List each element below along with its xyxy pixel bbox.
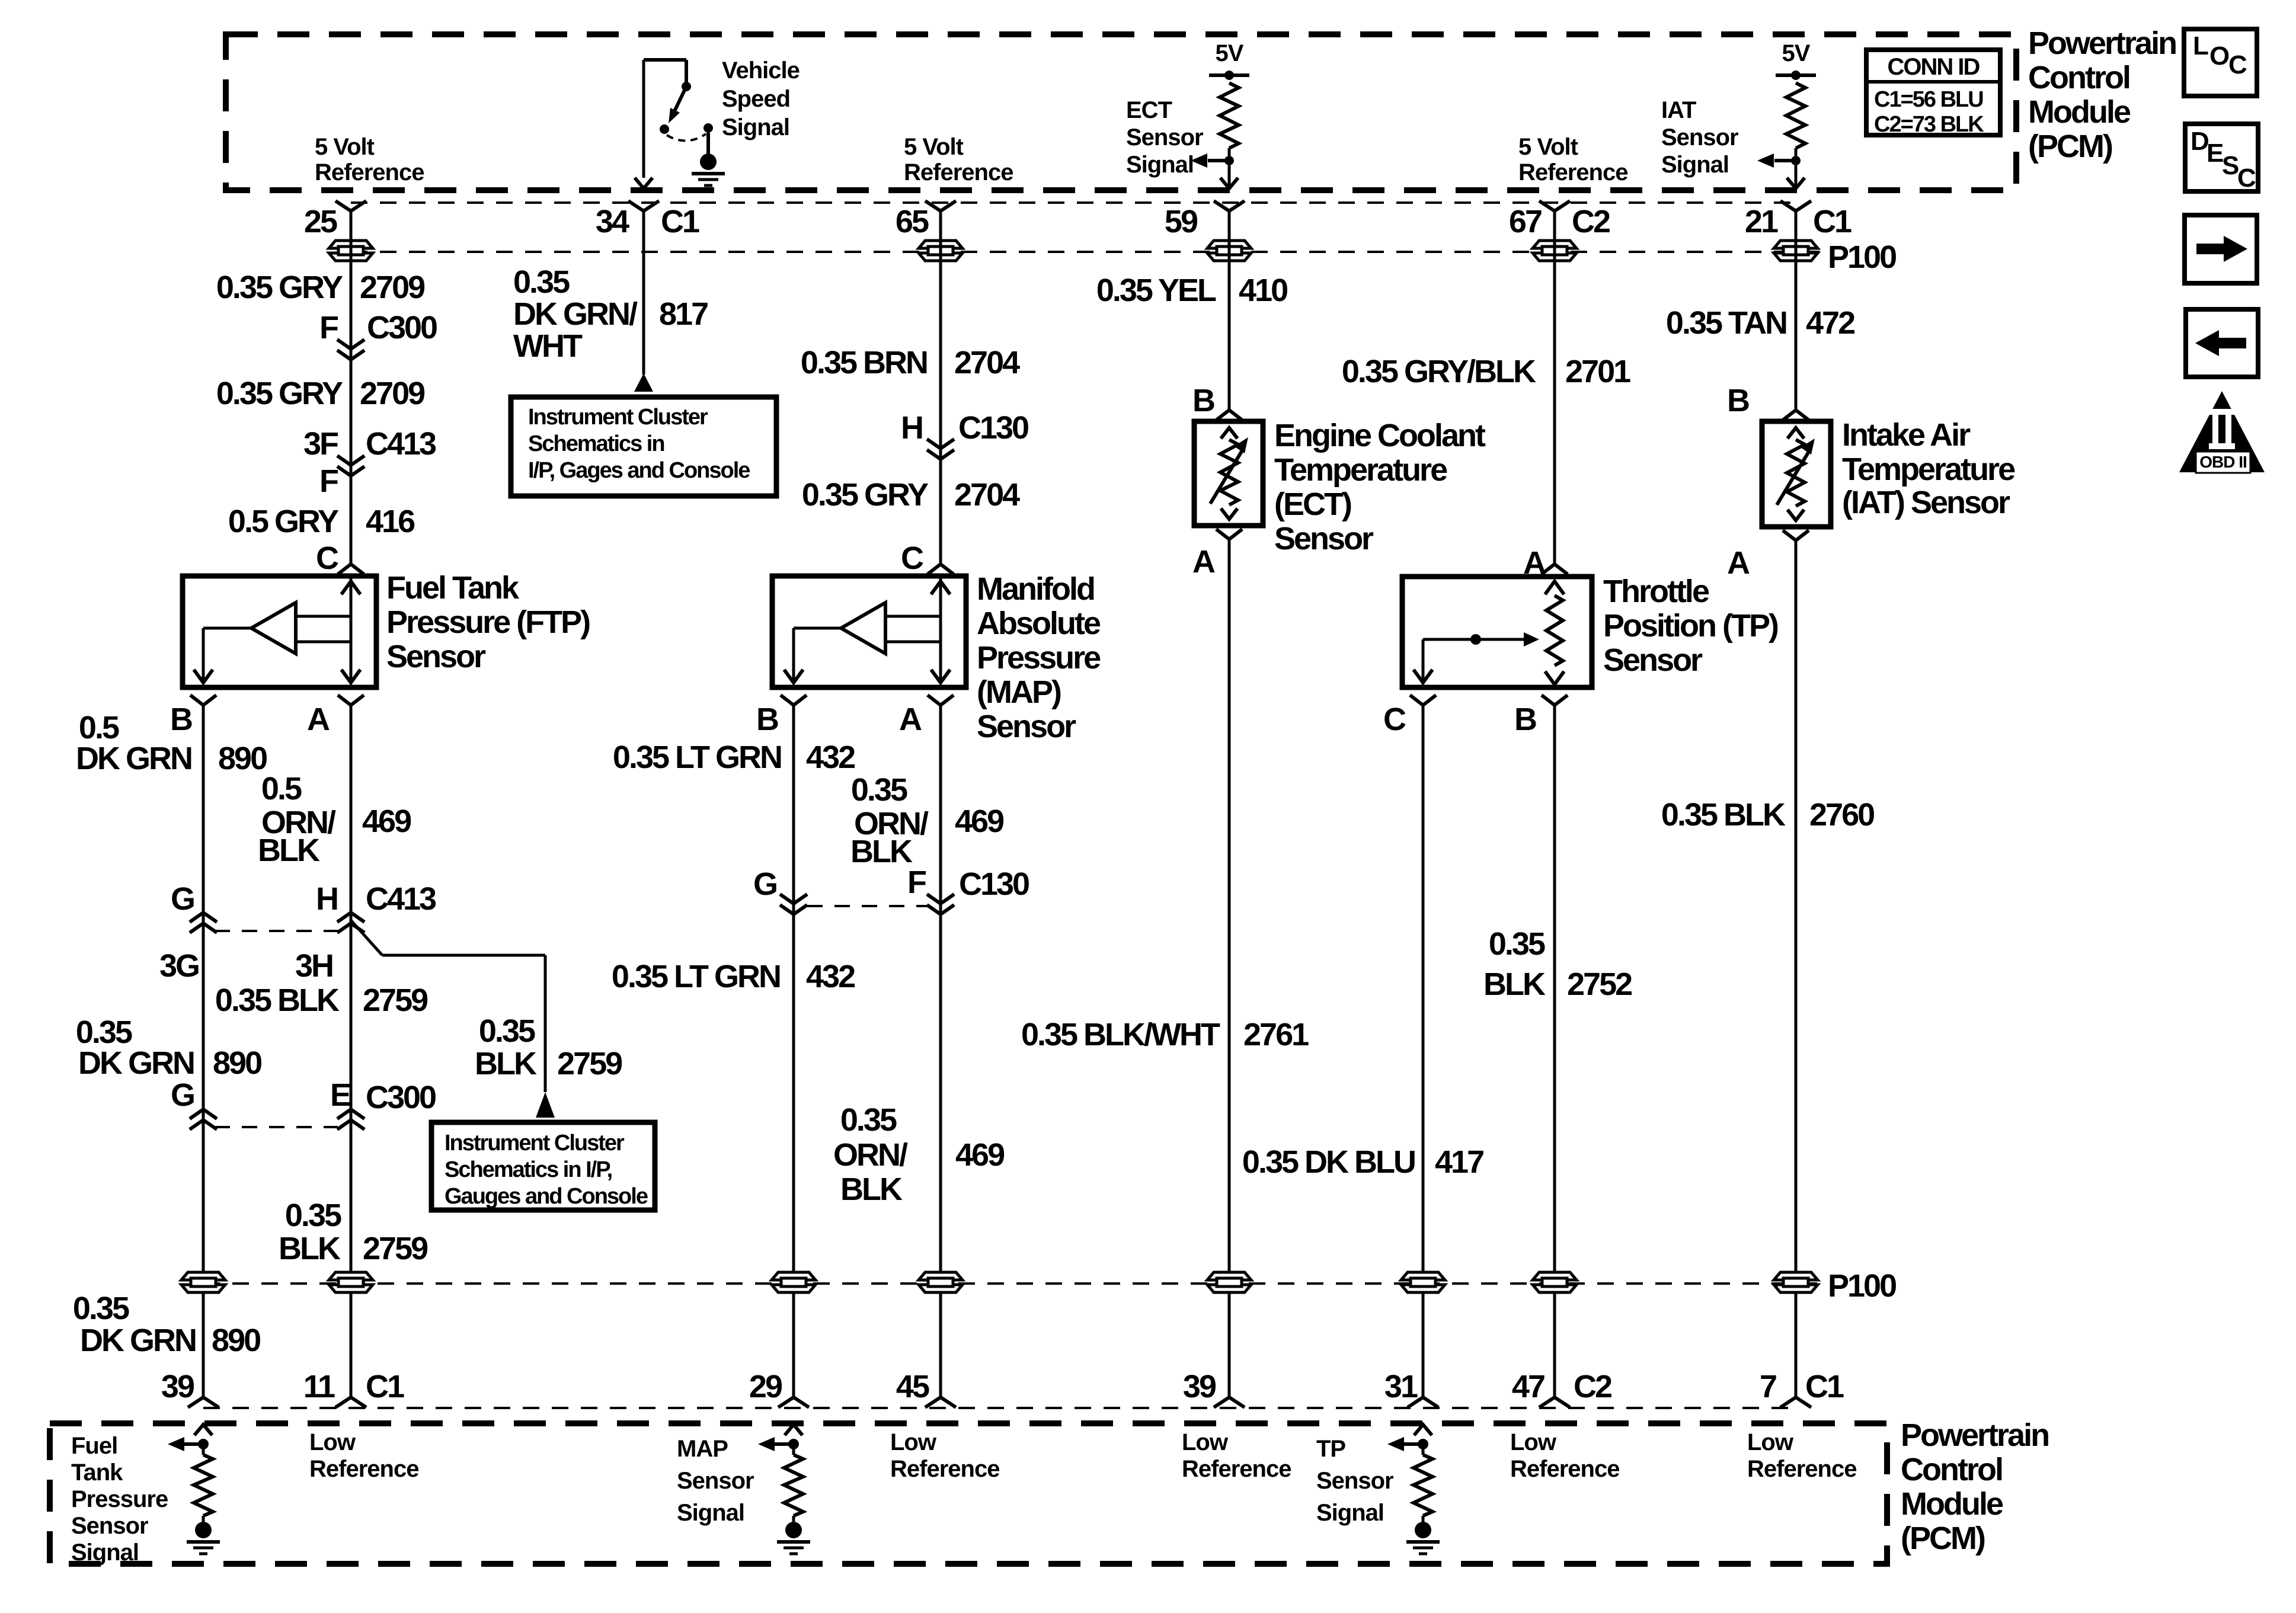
svg-text:Sensor: Sensor (1661, 124, 1738, 151)
svg-text:Sensor: Sensor (1274, 521, 1374, 556)
wire ECT A to pin 39 (1228, 539, 1231, 1397)
svg-text:2759: 2759 (363, 1231, 428, 1266)
svg-text:432: 432 (806, 740, 855, 775)
pin 21 (top) (1780, 201, 1811, 211)
svg-text:Instrument Cluster: Instrument Cluster (445, 1131, 625, 1156)
P100 inline connectors (bottom row) (181, 1272, 225, 1280)
svg-text:BLK: BLK (258, 833, 320, 868)
ground (FTP signal) (195, 1522, 212, 1538)
svg-text:Reference: Reference (1518, 159, 1627, 185)
svg-text:2701: 2701 (1565, 354, 1630, 389)
svg-text:Reference: Reference (315, 159, 424, 185)
svg-text:B: B (1727, 383, 1749, 418)
svg-text:3G: 3G (159, 948, 199, 984)
CONN ID table (1866, 50, 2000, 135)
svg-text:Schematics in: Schematics in (528, 431, 664, 456)
pin 65 (top) (925, 201, 956, 211)
svg-text:Low: Low (309, 1429, 356, 1455)
svg-text:Absolute: Absolute (977, 606, 1101, 641)
svg-text:F: F (319, 463, 338, 499)
MAP pins B and A (781, 695, 807, 705)
svg-text:DK GRN: DK GRN (80, 1323, 196, 1358)
svg-text:417: 417 (1435, 1144, 1483, 1180)
PCM top box (dashed) (226, 34, 2016, 190)
resistor IAT pull-up (1776, 73, 1816, 77)
svg-text:410: 410 (1239, 273, 1287, 308)
svg-text:Gauges and Console: Gauges and Console (445, 1184, 648, 1209)
svg-text:C413: C413 (366, 881, 436, 917)
svg-text:7: 7 (1760, 1369, 1776, 1404)
svg-text:5 Volt: 5 Volt (1518, 134, 1578, 160)
svg-text:Sensor: Sensor (677, 1468, 754, 1494)
svg-text:G: G (753, 866, 776, 902)
TP pins C and B (1410, 695, 1436, 705)
svg-text:DK GRN/: DK GRN/ (513, 296, 638, 332)
svg-text:C300: C300 (366, 1080, 436, 1115)
svg-text:C130: C130 (958, 410, 1028, 446)
svg-text:Signal: Signal (1316, 1500, 1384, 1526)
svg-text:34: 34 (596, 204, 629, 239)
svg-text:817: 817 (659, 296, 708, 332)
svg-text:C1: C1 (1813, 204, 1851, 239)
svg-text:DK GRN: DK GRN (78, 1045, 194, 1081)
svg-text:(MAP): (MAP) (977, 674, 1061, 710)
svg-text:BLK: BLK (850, 834, 913, 869)
wire FTP B (DK GRN 890) down to pin 39 (202, 705, 205, 1397)
svg-text:5V: 5V (1782, 40, 1811, 66)
svg-text:59: 59 (1165, 204, 1198, 239)
svg-text:Low: Low (1747, 1429, 1794, 1455)
svg-text:Signal: Signal (1126, 152, 1194, 178)
svg-text:Powertrain: Powertrain (1901, 1417, 2048, 1453)
svg-text:0.35 BLK: 0.35 BLK (1661, 797, 1786, 833)
IAT sensor signal arrow (1774, 159, 1796, 162)
P100 dashed line (top) (351, 251, 1825, 253)
svg-text:(PCM): (PCM) (2028, 129, 2112, 164)
svg-text:2709: 2709 (360, 270, 425, 305)
svg-text:C1: C1 (661, 204, 699, 239)
svg-text:2752: 2752 (1567, 966, 1632, 1002)
svg-text:(PCM): (PCM) (1901, 1521, 1985, 1556)
svg-text:0.5 GRY: 0.5 GRY (228, 504, 339, 539)
Throttle Position (TP) Sensor box (1402, 577, 1592, 687)
svg-text:C: C (901, 540, 923, 576)
svg-text:0.35 LT GRN: 0.35 LT GRN (613, 740, 781, 775)
MAP internal amplifier (939, 578, 942, 642)
svg-text:0.5: 0.5 (79, 710, 119, 745)
svg-text:2704: 2704 (954, 345, 1020, 380)
pin 31 (bottom) (1408, 1397, 1438, 1407)
svg-text:3F: 3F (303, 426, 338, 462)
svg-text:Reference: Reference (890, 1456, 999, 1482)
svg-text:3H: 3H (295, 948, 332, 984)
svg-text:65: 65 (896, 204, 929, 239)
pin 59 (top) (1214, 201, 1245, 211)
C1/C2 connector face dashed line (top) (351, 201, 1796, 204)
svg-text:2760: 2760 (1809, 797, 1874, 833)
svg-text:416: 416 (366, 504, 415, 539)
wire pin21 to IAT sensor (1795, 211, 1798, 410)
svg-text:67: 67 (1509, 204, 1542, 239)
svg-text:0.35 GRY: 0.35 GRY (802, 477, 929, 513)
svg-text:O: O (2209, 41, 2229, 71)
svg-text:31: 31 (1384, 1369, 1418, 1404)
svg-text:S: S (2222, 151, 2239, 180)
svg-text:0.35: 0.35 (851, 772, 907, 808)
svg-text:I/P, Gages and Console: I/P, Gages and Console (528, 458, 750, 483)
svg-text:0.35 BLK: 0.35 BLK (215, 982, 340, 1018)
svg-text:Reference: Reference (904, 159, 1013, 185)
svg-text:Fuel: Fuel (71, 1433, 117, 1459)
pin 39 (bottom) (1214, 1397, 1245, 1407)
Instrument Cluster note box (upper) (511, 397, 776, 496)
svg-text:469: 469 (955, 1137, 1005, 1173)
svg-text:Control: Control (2028, 60, 2129, 95)
svg-text:Instrument Cluster: Instrument Cluster (528, 405, 708, 430)
svg-text:5 Volt: 5 Volt (315, 134, 375, 160)
wire MAP B (LT GRN 432) to pin 29 (792, 705, 795, 1397)
wire pin25 to FTP sensor (350, 211, 353, 564)
svg-text:Intake Air: Intake Air (1842, 417, 1971, 453)
svg-text:C: C (2228, 50, 2247, 79)
svg-text:2759: 2759 (363, 982, 428, 1018)
svg-text:Sensor: Sensor (1603, 642, 1703, 678)
svg-text:MAP: MAP (677, 1436, 728, 1462)
resistor ECT pull-up (1209, 73, 1249, 77)
svg-text:11: 11 (303, 1369, 335, 1404)
vehicle speed signal switch (644, 58, 686, 62)
OBD II triangle icon (2179, 391, 2265, 472)
wire TP C to pin 31 (1422, 705, 1425, 1397)
svg-text:Position (TP): Position (TP) (1603, 608, 1778, 644)
svg-text:0.5: 0.5 (261, 771, 302, 806)
svg-text:Pressure: Pressure (977, 640, 1101, 676)
svg-text:ECT: ECT (1126, 97, 1172, 123)
svg-text:469: 469 (955, 804, 1004, 839)
svg-text:C300: C300 (367, 310, 437, 345)
TP potentiometer (1545, 581, 1564, 594)
svg-text:Module: Module (2028, 94, 2131, 130)
svg-text:Fuel Tank: Fuel Tank (386, 570, 520, 606)
svg-text:C: C (2237, 164, 2256, 193)
FTP signal arrow and pull-down (194, 1425, 212, 1435)
svg-text:472: 472 (1806, 305, 1854, 341)
svg-text:DK GRN: DK GRN (76, 741, 191, 776)
svg-text:B: B (756, 702, 778, 737)
svg-text:H: H (316, 881, 337, 917)
svg-text:5V: 5V (1216, 40, 1244, 66)
pin 45 (bottom) (925, 1397, 956, 1407)
svg-text:Temperature: Temperature (1274, 452, 1447, 488)
svg-text:Signal: Signal (677, 1500, 744, 1526)
Manifold Absolute Pressure (MAP) Sensor box (772, 576, 966, 687)
wire pin67 to TP sensor (1553, 211, 1556, 564)
svg-text:21: 21 (1745, 204, 1778, 239)
ECT thermistor (1221, 428, 1237, 439)
svg-text:C: C (316, 540, 338, 576)
wire MAP A (ORN/BLK 469) to pin 45 (939, 705, 942, 1397)
svg-text:C130: C130 (959, 866, 1029, 902)
svg-text:F: F (907, 865, 926, 900)
svg-text:WHT: WHT (513, 328, 583, 364)
svg-text:0.35: 0.35 (479, 1013, 535, 1049)
svg-text:2704: 2704 (954, 477, 1020, 513)
off-page triangle to instrument cluster (branch) (536, 1092, 555, 1118)
svg-text:Low: Low (1510, 1429, 1557, 1455)
svg-text:P100: P100 (1828, 239, 1896, 275)
svg-text:29: 29 (749, 1369, 782, 1404)
ground (MAP signal) (785, 1522, 802, 1538)
ECT sensor signal arrow (1208, 159, 1229, 162)
PCM bottom box (dashed) (50, 1423, 1887, 1564)
svg-text:0.35 DK BLU: 0.35 DK BLU (1242, 1144, 1415, 1180)
svg-text:890: 890 (212, 1323, 260, 1358)
svg-text:0.35: 0.35 (1489, 926, 1545, 962)
svg-text:Throttle: Throttle (1603, 574, 1709, 609)
svg-text:0.35 GRY/BLK: 0.35 GRY/BLK (1342, 354, 1536, 389)
wire arrow into PCM edge (VSS) (635, 178, 653, 188)
svg-text:0.35 GRY: 0.35 GRY (216, 376, 343, 411)
svg-text:0.35: 0.35 (73, 1291, 129, 1326)
svg-text:BLK: BLK (475, 1046, 537, 1081)
svg-text:2759: 2759 (557, 1046, 622, 1081)
svg-text:C2=73 BLK: C2=73 BLK (1874, 112, 1984, 137)
svg-text:432: 432 (806, 959, 855, 994)
svg-text:Module: Module (1901, 1486, 2003, 1522)
svg-text:B: B (1514, 702, 1536, 737)
svg-text:47: 47 (1512, 1369, 1544, 1404)
svg-text:Reference: Reference (309, 1456, 418, 1482)
svg-text:890: 890 (213, 1045, 261, 1081)
svg-text:BLK: BLK (840, 1172, 903, 1207)
svg-text:C2: C2 (1574, 1369, 1611, 1404)
svg-text:5 Volt: 5 Volt (904, 134, 964, 160)
P100 inline connectors (top row) (329, 241, 373, 248)
svg-text:0.35 BLK/WHT: 0.35 BLK/WHT (1021, 1017, 1220, 1052)
svg-text:C1=56 BLU: C1=56 BLU (1874, 87, 1983, 112)
off-page triangle to instrument cluster (634, 373, 653, 392)
ground (TP signal) (1415, 1522, 1431, 1538)
svg-text:C: C (1383, 702, 1406, 737)
svg-text:469: 469 (362, 804, 411, 839)
svg-text:Control: Control (1901, 1452, 2002, 1487)
C413 dashed connector line (215, 930, 351, 932)
svg-text:Sensor: Sensor (71, 1513, 148, 1539)
pin 7 (bottom) (1780, 1397, 1811, 1407)
wire FTP A / low ref down to pin 11 (350, 705, 353, 1397)
svg-text:E: E (330, 1077, 350, 1113)
svg-text:Signal: Signal (1661, 152, 1729, 178)
pin 39 (bottom) (188, 1397, 219, 1407)
svg-text:2709: 2709 (360, 376, 425, 411)
svg-text:Signal: Signal (71, 1540, 139, 1566)
svg-text:Schematics in I/P,: Schematics in I/P, (445, 1157, 612, 1182)
svg-text:ORN/: ORN/ (833, 1137, 908, 1173)
svg-text:Tank: Tank (71, 1460, 123, 1486)
LOC icon box (2184, 29, 2257, 96)
svg-text:BLK: BLK (1483, 966, 1546, 1002)
back arrow icon box (2186, 309, 2258, 377)
svg-text:Temperature: Temperature (1842, 452, 2015, 487)
svg-text:39: 39 (1183, 1369, 1216, 1404)
svg-text:B: B (1192, 383, 1214, 418)
branch wire to instrument cluster (2759) (351, 920, 382, 955)
svg-text:39: 39 (161, 1369, 194, 1404)
svg-text:Sensor: Sensor (977, 709, 1076, 744)
pin A (ECT) (1216, 529, 1242, 539)
svg-text:Manifold: Manifold (977, 571, 1094, 607)
svg-text:C1: C1 (366, 1369, 404, 1404)
svg-text:0.35: 0.35 (76, 1014, 132, 1050)
wire pin59 to ECT sensor (1228, 211, 1231, 410)
svg-text:Reference: Reference (1747, 1456, 1856, 1482)
ground (VSS) (700, 153, 717, 170)
IAT thermistor (1787, 428, 1804, 439)
svg-text:(IAT) Sensor: (IAT) Sensor (1842, 485, 2010, 520)
svg-text:890: 890 (218, 741, 267, 776)
pin 25 (top) (335, 201, 366, 211)
svg-text:0.35 GRY: 0.35 GRY (216, 270, 343, 305)
MAP signal arrow and pull-down (785, 1425, 802, 1435)
C1/C2 connector face dashed line (bottom) (203, 1407, 1796, 1409)
svg-text:2761: 2761 (1243, 1017, 1309, 1052)
pin 29 (bottom) (778, 1397, 809, 1407)
svg-text:Vehicle: Vehicle (722, 57, 800, 84)
svg-text:Low: Low (1182, 1429, 1229, 1455)
wire pin34 to instrument cluster triangle (642, 211, 645, 375)
svg-text:0.35 BRN: 0.35 BRN (801, 345, 927, 380)
svg-text:(ECT): (ECT) (1274, 487, 1351, 522)
svg-text:Sensor: Sensor (386, 639, 486, 674)
svg-text:0.35 TAN: 0.35 TAN (1666, 305, 1786, 341)
pin 34 (top) (628, 201, 659, 211)
svg-text:Engine Coolant: Engine Coolant (1274, 418, 1486, 453)
pin 47 (bottom) (1539, 1397, 1570, 1407)
pin A (IAT) (1783, 530, 1809, 540)
svg-text:25: 25 (304, 204, 337, 239)
svg-text:C2: C2 (1572, 204, 1610, 239)
pin 11 (bottom) (335, 1397, 366, 1407)
svg-text:0.35: 0.35 (840, 1102, 897, 1138)
svg-text:Reference: Reference (1510, 1456, 1619, 1482)
DESC icon box (2185, 124, 2258, 191)
Intake Air Temperature (IAT) Sensor box (1762, 421, 1831, 527)
svg-text:Sensor: Sensor (1316, 1468, 1393, 1494)
svg-text:D: D (2191, 127, 2208, 156)
pin 67 (top) (1539, 201, 1570, 211)
TP wiper arm (1423, 638, 1524, 641)
svg-text:Reference: Reference (1182, 1456, 1291, 1482)
wire IAT A to pin 7 (1795, 540, 1798, 1397)
svg-text:L: L (2193, 31, 2208, 60)
svg-text:IAT: IAT (1661, 97, 1696, 123)
Engine Coolant Temperature (ECT) Sensor box (1194, 421, 1263, 526)
svg-text:Pressure: Pressure (71, 1486, 168, 1512)
svg-text:Low: Low (890, 1429, 937, 1455)
svg-text:0.35: 0.35 (285, 1198, 341, 1233)
svg-text:BLK: BLK (279, 1231, 341, 1266)
svg-text:OBD II: OBD II (2199, 453, 2247, 471)
svg-text:B: B (170, 702, 192, 737)
svg-text:P100: P100 (1828, 1268, 1896, 1304)
TP signal arrow and pull-down (1414, 1425, 1432, 1435)
FTP internal amplifier (350, 578, 353, 642)
svg-text:A: A (1727, 545, 1750, 581)
svg-text:0.35: 0.35 (513, 264, 570, 300)
FTP pins B and A (190, 695, 216, 705)
svg-text:Sensor: Sensor (1126, 124, 1203, 151)
wire TP B to pin 47 (1553, 705, 1556, 1397)
Instrument Cluster note box (lower) (431, 1122, 655, 1210)
svg-text:A: A (307, 702, 330, 737)
svg-text:F: F (319, 310, 338, 345)
svg-text:CONN ID: CONN ID (1888, 54, 1980, 80)
svg-text:Pressure (FTP): Pressure (FTP) (386, 604, 590, 640)
svg-text:0.35 LT GRN: 0.35 LT GRN (612, 959, 780, 994)
svg-text:G: G (171, 1077, 194, 1113)
forward arrow icon box (2185, 215, 2257, 283)
svg-text:G: G (171, 881, 194, 917)
svg-text:H: H (901, 410, 922, 446)
svg-text:E: E (2207, 139, 2223, 168)
Fuel Tank Pressure (FTP) Sensor box (183, 576, 376, 687)
svg-text:Speed: Speed (722, 86, 790, 112)
svg-text:TP: TP (1316, 1436, 1345, 1462)
svg-text:A: A (1192, 544, 1215, 580)
svg-text:Signal: Signal (722, 114, 789, 140)
svg-text:A: A (899, 702, 922, 737)
svg-text:C413: C413 (366, 426, 436, 462)
svg-text:Powertrain: Powertrain (2028, 25, 2176, 61)
svg-text:0.35 YEL: 0.35 YEL (1096, 273, 1216, 308)
svg-text:C1: C1 (1805, 1369, 1844, 1404)
wire pin65 to MAP sensor (939, 211, 942, 564)
svg-text:45: 45 (896, 1369, 929, 1404)
P100 dashed line (bottom) (203, 1282, 1825, 1285)
